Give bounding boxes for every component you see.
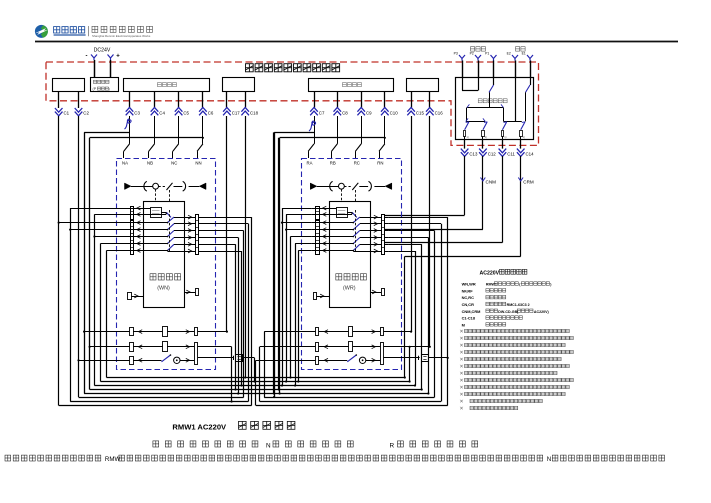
wire C2 to bottom bus [78, 116, 80, 397]
svg-text:RC: RC [354, 160, 360, 165]
header rule [35, 41, 678, 43]
legend note [460, 372, 463, 375]
terminal C4 [154, 91, 156, 108]
svg-text:(WN): (WN) [157, 286, 170, 292]
svg-text:NC: NC [171, 160, 177, 165]
release coil block [337, 208, 348, 218]
operating mechanism 备用开关 [310, 183, 317, 190]
caption paragraph [5, 455, 11, 461]
output pin [482, 131, 485, 137]
aux row 3 with charging motor [316, 357, 319, 365]
output pin [520, 131, 523, 137]
bus wire [107, 377, 405, 379]
unit2 aux row out-wires (left) [264, 331, 315, 333]
svg-text:N: N [547, 456, 551, 463]
legend note [460, 386, 463, 389]
wire C17 down [226, 116, 228, 332]
fork CRM [518, 178, 523, 182]
block 控制执行输出 [456, 78, 534, 140]
legend note [460, 337, 463, 340]
middle bundle [231, 347, 233, 402]
legend note [460, 351, 463, 354]
left bundle risers [70, 208, 72, 401]
svg-text:C16: C16 [435, 110, 444, 115]
aux row 2 [316, 343, 319, 352]
motor switch blade [347, 355, 356, 362]
svg-text:AC220V): AC220V) [534, 310, 550, 314]
svg-text:C7: C7 [319, 110, 325, 115]
label 常用开关 [150, 274, 156, 280]
motor feed connector [198, 357, 234, 359]
aux row 3 with charging motor [130, 357, 134, 365]
wires right terminal rows [199, 217, 203, 219]
svg-text:C17: C17 [232, 110, 241, 115]
svg-text:1): 1) [523, 135, 525, 139]
svg-text:P2: P2 [470, 52, 474, 56]
unit1 right out-wires [203, 217, 252, 219]
contact blade E1 [526, 85, 531, 92]
svg-text:N: N [266, 442, 271, 449]
svg-text:C5: C5 [183, 110, 189, 115]
svg-text:1): 1) [485, 135, 487, 139]
wire C11 run [502, 156, 504, 243]
svg-text:CNM,CRM: CNM,CRM [462, 309, 481, 314]
svg-text:Shanghai Renmin Electrical App: Shanghai Renmin Electrical Apparatus Wor… [92, 34, 151, 38]
wires left terminal rows [126, 208, 134, 210]
svg-text:C6: C6 [208, 110, 214, 115]
right terminal strip [382, 215, 385, 255]
svg-text:RA: RA [307, 160, 313, 165]
company name 上海人民电器厂 [92, 26, 98, 32]
feed wire to NA [84, 132, 86, 393]
blue ink mark [125, 119, 132, 129]
fork CNM [481, 178, 486, 182]
terminal C13 [464, 139, 466, 148]
switch unit 备用开关 enclosure (blue dashed) [302, 159, 402, 370]
block 辅助电源(P型接入) [91, 78, 119, 92]
terminal C8 [337, 91, 339, 108]
svg-text:RN: RN [377, 160, 383, 165]
legend note [460, 330, 463, 333]
pole contact blades [319, 222, 353, 224]
svg-text:): ) [109, 87, 110, 91]
label 发电机 [471, 47, 475, 51]
feed wire to RA [274, 132, 276, 397]
legend note [460, 358, 463, 361]
terminal C12 [482, 139, 484, 148]
svg-text:C2: C2 [83, 110, 89, 115]
contact NN [202, 116, 204, 144]
svg-text:C14: C14 [526, 151, 535, 156]
logo divider [88, 26, 90, 36]
svg-text:RB: RB [330, 160, 336, 165]
svg-text:1): 1) [466, 135, 468, 139]
block 信号处理 #1 [124, 79, 210, 92]
svg-text:C8: C8 [342, 110, 348, 115]
svg-text:C4: C4 [159, 110, 165, 115]
output contact blade [521, 122, 525, 130]
contact NC [178, 116, 180, 144]
breaker frame box 常用开关 [144, 202, 185, 308]
svg-text:C3: C3 [134, 110, 140, 115]
wire output rail left [466, 121, 485, 123]
svg-text:C1-C18: C1-C18 [462, 316, 476, 321]
svg-text:R: R [390, 442, 395, 449]
bus wire [59, 405, 252, 407]
feed wire to NN [89, 138, 91, 390]
terminal C14 [520, 139, 522, 148]
bus wire [101, 381, 410, 383]
svg-text:WN,WR: WN,WR [462, 282, 476, 287]
wire DC24V- to aux supply [94, 60, 96, 78]
svg-text:CRM: CRM [523, 180, 534, 185]
controller title 双电源转换智能控制器 [246, 64, 254, 72]
terminal C1 [58, 91, 60, 108]
wire C12 run with CNM tap [482, 156, 484, 229]
output contact blade [483, 122, 487, 130]
svg-text:(: ( [519, 283, 521, 287]
svg-text:): ) [550, 283, 552, 287]
controller block (unlabeled) [53, 79, 85, 92]
terminal C17 [226, 91, 228, 108]
svg-text:(P: (P [93, 87, 97, 91]
svg-text:NB: NB [147, 160, 153, 165]
legend note [460, 393, 463, 396]
motor switch blade [162, 355, 171, 362]
tall right terminal [381, 343, 384, 365]
legend note [460, 379, 463, 382]
block 信号处理 #2 [309, 79, 394, 92]
terminal C2 [78, 91, 80, 108]
terminal C9 [361, 91, 363, 108]
unit2 left out-wires [282, 208, 312, 210]
output contact blade [465, 122, 469, 130]
contact RC [361, 116, 363, 144]
terminal C5 [178, 91, 180, 108]
legend note [460, 365, 463, 368]
wire C15 down [411, 116, 413, 332]
svg-text:C13: C13 [469, 151, 478, 156]
svg-text:DC24V: DC24V [94, 48, 111, 54]
terminal C10 [384, 91, 386, 108]
svg-text:(WR): (WR) [343, 286, 356, 292]
terminal C11 [502, 139, 504, 148]
svg-text:CNM: CNM [486, 180, 497, 185]
wire C1 to bottom bus [58, 116, 60, 406]
svg-text:NA: NA [122, 160, 128, 165]
svg-text:E1: E1 [522, 52, 526, 56]
svg-text:P1: P1 [485, 52, 489, 56]
bus wire [94, 385, 415, 387]
controller block (unlabeled) [407, 79, 439, 92]
svg-text:C9: C9 [366, 110, 372, 115]
svg-text:+: + [116, 54, 120, 60]
svg-text:NC,RC: NC,RC [462, 295, 475, 300]
output contact blade [502, 122, 506, 130]
left terminal strip lower [131, 221, 134, 255]
mechanism switch blade [352, 183, 358, 190]
mechanism switch blade [167, 183, 173, 190]
svg-text:NF,RF: NF,RF [462, 288, 474, 293]
terminal C6 [202, 91, 204, 108]
breaker frame box 备用开关 [330, 202, 371, 308]
controller block (unlabeled) [223, 78, 255, 92]
left terminal strip upper [316, 207, 320, 220]
legend note [460, 344, 463, 347]
tall right terminal [195, 343, 198, 365]
terminal C18 [245, 91, 247, 108]
contact blade P1 [489, 85, 494, 92]
wire output common rail [467, 107, 504, 109]
right terminal strip [196, 215, 199, 255]
svg-text:-: - [86, 54, 88, 60]
frame box bottom pins [128, 293, 132, 300]
svg-text:P3: P3 [454, 52, 458, 56]
pole linkage (dashed) [169, 210, 171, 252]
aux contact blade [166, 212, 171, 217]
svg-text:E2: E2 [507, 52, 511, 56]
svg-text:RMW1: RMW1 [486, 283, 497, 287]
wire C13 run [464, 156, 466, 215]
svg-text:M: M [462, 322, 465, 327]
wires left terminal rows [312, 208, 320, 210]
caption note line [153, 441, 159, 447]
legend note [460, 407, 463, 410]
terminal C15 [411, 91, 413, 108]
unit2 right out-wires [389, 217, 448, 219]
svg-text:C11: C11 [507, 151, 515, 156]
terminal C7 [314, 91, 316, 108]
output pin [464, 131, 466, 137]
wire C16 down [429, 116, 431, 347]
label 备用开关 [336, 274, 342, 280]
svg-text:AC220V: AC220V [480, 270, 500, 276]
wire C14 run with CRM tap [520, 156, 522, 256]
aux row 1 [316, 328, 319, 336]
left terminal strip lower [316, 221, 320, 255]
wires right terminal rows [385, 217, 389, 219]
unit1 left strip out-wires [70, 208, 126, 210]
bus wire [79, 397, 244, 399]
output relay contacts inside 控制执行输出 [462, 77, 464, 90]
svg-text:C18: C18 [250, 110, 259, 115]
blue ink mark [309, 121, 316, 131]
release coil block [151, 208, 162, 218]
terminal C16 [429, 91, 431, 108]
aux row 1 [130, 328, 134, 336]
svg-text:CN,CR: CN,CR [462, 302, 475, 307]
operating mechanism 常用开关 [125, 183, 132, 190]
contact RN [384, 116, 386, 144]
wire C18 down [245, 116, 247, 378]
motor feed connector [384, 357, 420, 359]
bus wire [84, 393, 428, 395]
svg-text:C10: C10 [390, 110, 399, 115]
svg-text:C1: C1 [64, 110, 70, 115]
right bundle [447, 217, 449, 405]
controller enclosure (red dashed) 双电源转换智能控制器 [46, 62, 539, 145]
output pin [502, 131, 504, 137]
DC24V terminal forks [91, 55, 97, 61]
terminal C3 [129, 91, 131, 108]
feed wire to RN [279, 138, 281, 394]
svg-text:RMW1 AC220V: RMW1 AC220V [172, 422, 227, 431]
contact RB [337, 116, 339, 144]
bus wire [90, 389, 422, 391]
logo Shanghai Electric emblem [35, 25, 48, 38]
legend note [460, 400, 463, 403]
aux row 2 [130, 343, 134, 352]
svg-text:RMC1-63C3 2: RMC1-63C3 2 [507, 303, 530, 307]
wire output rail right [504, 121, 522, 123]
label 报警 [516, 47, 520, 51]
wire DC24V+ to aux supply [110, 60, 112, 78]
svg-text:RMW: RMW [105, 456, 121, 463]
svg-text:1): 1) [504, 135, 506, 139]
contact RA [314, 116, 316, 144]
svg-text:C15: C15 [416, 110, 425, 115]
svg-text:DW-CD-GB(: DW-CD-GB( [498, 310, 519, 314]
pole linkage (dashed) [355, 210, 357, 252]
aux contact blade [352, 212, 357, 217]
svg-text:NN: NN [195, 160, 201, 165]
contact NA [129, 116, 131, 144]
bus wire [70, 401, 248, 403]
switch unit 常用开关 enclosure (blue dashed) [117, 159, 216, 370]
logo text 上海电气 [54, 27, 60, 33]
svg-text:C12: C12 [488, 151, 497, 156]
pole contact blades [134, 222, 168, 224]
contact NB [154, 116, 156, 144]
left terminal strip upper [131, 207, 134, 220]
frame box bottom pins [314, 293, 317, 300]
